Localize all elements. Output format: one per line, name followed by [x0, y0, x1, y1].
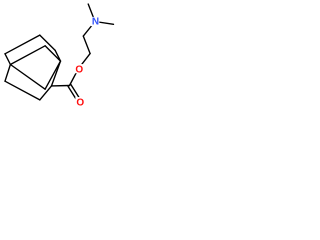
svg-text:N: N	[92, 17, 99, 28]
svg-text:O: O	[75, 64, 83, 75]
svg-text:O: O	[76, 97, 84, 108]
